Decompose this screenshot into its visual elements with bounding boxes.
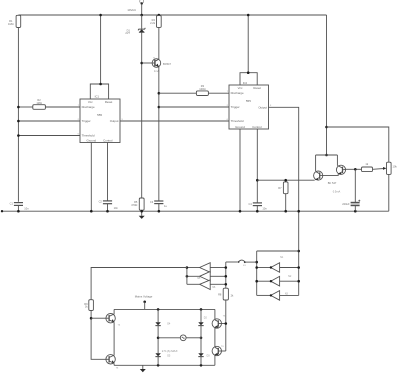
- label R9 value: [84, 302, 88, 309]
- wire C2 to ground bus: [107, 204, 109, 212]
- wire IC1 control pin to C2: [107, 143, 109, 201]
- junction IC1 bracket: [99, 83, 102, 86]
- svg-text:2k: 2k: [231, 294, 234, 298]
- label C5 plus: [358, 200, 360, 202]
- capacitor C4: [253, 203, 262, 206]
- svg-text:N6: N6: [212, 287, 216, 289]
- svg-text:IC2: IC2: [243, 81, 248, 85]
- junction node A dots: [17, 106, 20, 137]
- svg-text:1k: 1k: [85, 305, 88, 309]
- svg-text:555: 555: [97, 113, 102, 117]
- svg-text:D4: D4: [167, 324, 171, 326]
- label R1 value: [8, 19, 14, 26]
- wire left diode rail upper: [157, 309, 159, 322]
- wire R9 down to Q4 base: [91, 311, 106, 360]
- svg-text:T6: T6: [116, 368, 119, 370]
- svg-text:Discharge: Discharge: [82, 105, 95, 109]
- wire darlington collector bar: [316, 154, 338, 156]
- wire node A to IC1 trigger pin 2: [18, 120, 80, 122]
- potentiometer P1: [387, 162, 392, 174]
- resistor R4: [157, 16, 162, 28]
- wire switch left lead: [226, 261, 238, 263]
- wire R8 to transistor bases: [225, 300, 227, 351]
- diode D4: [155, 322, 160, 325]
- resistor R2: [33, 105, 46, 110]
- junction discharge branch: [158, 92, 161, 95]
- buffer N2: [255, 276, 300, 286]
- svg-text:N1: N1: [280, 257, 284, 259]
- wire C4 to bus: [256, 206, 258, 212]
- IC2 inner pin labels: [231, 86, 268, 129]
- svg-text:D3: D3: [207, 355, 211, 357]
- wire Q1 collector: [315, 155, 317, 171]
- transistor T1 BC547: [152, 59, 161, 68]
- ground symbol bottom section: [140, 365, 146, 372]
- wire bottom section bottom rail: [114, 364, 215, 366]
- diode D3: [198, 353, 203, 356]
- svg-text:2V7: 2V7: [125, 31, 130, 35]
- wire Q4 emitter to section bottom rail: [113, 363, 115, 365]
- IC2 pin stubs Vcc and Reset: [240, 73, 257, 85]
- wire Q3 base: [91, 317, 106, 319]
- svg-text:Threshold: Threshold: [82, 134, 95, 138]
- wire discharge branch to R3: [159, 92, 197, 94]
- IC2 pin numbers: [227, 91, 272, 121]
- resistor R3: [196, 91, 208, 96]
- wire IC2 output: [269, 107, 299, 295]
- resistor R5: [139, 198, 144, 210]
- junction Q5 base: [225, 322, 228, 325]
- svg-text:1u: 1u: [164, 204, 167, 208]
- svg-text:10n: 10n: [114, 206, 119, 210]
- svg-text:220uF: 220uF: [342, 202, 350, 206]
- svg-text:Output: Output: [258, 105, 267, 109]
- wire trigger branch to IC2 trigger pin 2: [159, 106, 229, 108]
- junction IC2 riser on top rail: [247, 14, 250, 17]
- svg-text:10k: 10k: [393, 164, 398, 168]
- svg-text:Reset: Reset: [253, 86, 261, 90]
- wire IC2 control pin down: [256, 129, 258, 203]
- svg-text:Control: Control: [252, 125, 262, 129]
- junction R7 top: [284, 179, 287, 182]
- resistor R9: [89, 300, 94, 311]
- wire IC1 output to IC2 threshold: [120, 120, 229, 122]
- wire IC2 supply riser: [247, 15, 249, 73]
- diode D2: [198, 322, 203, 325]
- wire drive line to bottom left column: [91, 268, 187, 300]
- transistor T3 Q6: [212, 346, 221, 355]
- wire right diode rail lower: [200, 357, 202, 366]
- junction trigger branch: [158, 106, 161, 109]
- wire inverter bank input bus: [225, 262, 227, 288]
- wire Q3 emitter to Q4 collector: [113, 322, 115, 355]
- junction darlington top: [325, 154, 328, 157]
- svg-text:470Ω: 470Ω: [131, 203, 137, 207]
- wire Q3 collector to section top rail: [113, 309, 115, 314]
- svg-text:10n: 10n: [24, 207, 29, 211]
- svg-text:C1: C1: [10, 202, 14, 206]
- svg-text:BC547: BC547: [163, 62, 171, 66]
- junction control branch: [256, 179, 259, 182]
- op IC2 555 timer box: [229, 85, 269, 129]
- wire R5 to bus: [141, 210, 143, 211]
- svg-text:2.5 (A) MAX: 2.5 (A) MAX: [162, 349, 178, 353]
- junction Q3 base tap: [90, 317, 93, 320]
- svg-text:10Volt: 10Volt: [127, 8, 136, 12]
- capacitor C1: [14, 203, 23, 206]
- label R3 value: [199, 84, 205, 91]
- svg-text:Discharge: Discharge: [231, 91, 244, 95]
- junction C5 tap: [354, 168, 357, 171]
- wire mid rail left: [158, 337, 180, 339]
- label R5 value: [131, 200, 138, 207]
- svg-text:555: 555: [246, 99, 251, 103]
- wire right diode rail middle: [200, 326, 202, 354]
- wire mid rail right: [186, 337, 201, 339]
- junction inverter bank top right: [297, 250, 300, 253]
- wire T1 base: [142, 62, 153, 64]
- junction T1 base tap: [140, 62, 143, 65]
- svg-text:Vcc: Vcc: [88, 100, 93, 104]
- wire R3 to IC2 discharge pin 7: [208, 92, 229, 94]
- svg-text:T3: T3: [221, 346, 224, 348]
- IC1 pin numbers: [78, 105, 124, 135]
- svg-text:Vcc: Vcc: [238, 86, 243, 90]
- svg-text:C2: C2: [99, 200, 103, 204]
- wire ground bus: [2, 210, 389, 212]
- svg-text:N2: N2: [288, 276, 292, 278]
- wire inverter bank top link: [257, 250, 299, 252]
- junction R4 on top rail: [158, 14, 161, 17]
- svg-text:Ground: Ground: [86, 139, 96, 143]
- svg-text:Control: Control: [103, 139, 113, 143]
- resistor R1: [16, 15, 21, 27]
- svg-text:D5: D5: [167, 356, 171, 358]
- svg-text:IC1: IC1: [95, 95, 100, 99]
- svg-text:R8: R8: [218, 292, 222, 296]
- wire IC2 ground pin to bus: [239, 129, 241, 211]
- buffer N6: [187, 280, 227, 290]
- wire right column top: [214, 309, 216, 319]
- wire top Vcc rail: [18, 14, 326, 16]
- svg-text:10n: 10n: [262, 206, 267, 210]
- svg-text:Trigger: Trigger: [231, 105, 240, 109]
- wire top rail to zener D1: [141, 15, 143, 29]
- transistor T5 Q5: [212, 319, 221, 328]
- buffer N5: [186, 272, 228, 282]
- transistor T6 Q4: [106, 355, 115, 364]
- wire C1 to ground bus: [17, 205, 19, 211]
- svg-text:N5: N5: [197, 278, 201, 280]
- junction mid rail: [157, 337, 203, 340]
- junction IC1 riser on top rail: [99, 14, 102, 17]
- wire C5 to bus: [354, 205, 356, 211]
- svg-text:Output: Output: [110, 119, 119, 123]
- junction top rail at zener column: [140, 14, 143, 17]
- diode D1 zener: [138, 28, 145, 33]
- wire R1 down to node A: [17, 28, 19, 202]
- svg-text:C4: C4: [248, 202, 252, 206]
- diode D5: [155, 353, 160, 356]
- ground symbol at bus: [139, 211, 145, 219]
- svg-text:Threshold: Threshold: [231, 119, 244, 123]
- wire Q6 emitter to bottom rail: [214, 355, 216, 365]
- label D1 value: [125, 28, 130, 35]
- buffer N1: [255, 263, 300, 273]
- buffer N3: [257, 291, 299, 301]
- wire Q5 emitter to Q6 collector: [214, 328, 216, 347]
- wire pot bottom to bus: [388, 174, 390, 211]
- svg-text:BC 547: BC 547: [328, 181, 337, 185]
- op IC1 555 timer box: [80, 99, 120, 143]
- wire Q2 emitter to Q1 base: [323, 174, 338, 175]
- label R2 value: [36, 98, 42, 105]
- power flag 10Volt: [140, 0, 144, 15]
- svg-text:0.5mA: 0.5mA: [333, 189, 341, 193]
- wire C5 column: [354, 169, 356, 202]
- IC1 pin stubs Vcc and Reset: [90, 84, 108, 99]
- junction switch node: [255, 261, 258, 264]
- svg-text:2.2k: 2.2k: [150, 21, 156, 25]
- resistor R6: [362, 167, 373, 172]
- svg-text:1MΩ: 1MΩ: [36, 101, 42, 105]
- wire zener column down to R5: [141, 32, 143, 198]
- svg-text:D2: D2: [204, 318, 208, 320]
- svg-text:1MΩ: 1MΩ: [8, 22, 14, 26]
- IC1 inner pin labels: [82, 100, 119, 143]
- wire R6 to pot wiper arrow: [373, 168, 385, 171]
- svg-text:Mains Voltage: Mains Voltage: [135, 295, 153, 299]
- junction output bus top: [186, 266, 189, 269]
- transistor T4 Q3: [106, 314, 115, 323]
- wire Q5 base to rail: [222, 323, 226, 325]
- switch S1: [238, 260, 246, 263]
- svg-text:100Ω: 100Ω: [199, 87, 205, 91]
- wire R4 to T1 collector: [158, 27, 160, 59]
- wire right diode rail upper: [200, 309, 202, 322]
- transistor Q1 BC547: [314, 171, 323, 180]
- wire T1 emitter column down to C3: [158, 67, 160, 201]
- wire R7 to bus: [285, 194, 287, 212]
- capacitor C2: [103, 201, 112, 204]
- wire node A to R2: [18, 106, 32, 108]
- wire inverter output bus left: [186, 268, 188, 285]
- junction pot feed: [325, 126, 328, 129]
- wire IC1 ground pin to bus: [90, 143, 92, 212]
- wire control node to Q1 emitter: [257, 179, 314, 181]
- wire left diode rail lower: [157, 357, 159, 366]
- wire node A to IC1 threshold pin 6: [18, 135, 80, 137]
- svg-text:1k: 1k: [365, 162, 368, 166]
- svg-text:Ground: Ground: [235, 125, 245, 129]
- wire Q2 collector: [336, 155, 338, 165]
- wire IC1 supply riser: [100, 15, 102, 84]
- junction bus dots: [1, 210, 357, 213]
- wire R2 to IC1 discharge pin 7: [45, 106, 80, 108]
- source V1 AC: [180, 335, 186, 341]
- pot wiper arrowhead: [383, 167, 387, 170]
- transistor Q2 BC547: [336, 165, 345, 174]
- resistor R8: [223, 288, 228, 300]
- svg-text:S1: S1: [243, 265, 246, 267]
- svg-text:T4: T4: [118, 324, 121, 326]
- wire pot feed across: [327, 127, 389, 162]
- label R4 value: [150, 18, 156, 25]
- junction IC2 bracket: [247, 71, 250, 74]
- svg-text:Reset: Reset: [105, 100, 113, 104]
- buffer N4: [187, 263, 227, 273]
- svg-text:R7: R7: [278, 186, 282, 190]
- resistor R7: [283, 182, 288, 194]
- wire Q6 base to rail: [222, 350, 226, 352]
- wire bottom section top rail: [114, 308, 215, 310]
- node Mains Voltage flag: [143, 301, 146, 310]
- capacitor C3: [154, 201, 163, 204]
- wire switch right lead: [245, 261, 256, 263]
- wire left diode rail middle: [157, 326, 159, 354]
- svg-text:Trigger: Trigger: [82, 119, 91, 123]
- wire Vcc right column: [326, 15, 328, 155]
- wire inverter bank left bus: [256, 251, 258, 295]
- wire Q2 base to R6: [346, 168, 362, 170]
- junction top rail diode taps: [157, 308, 203, 367]
- svg-text:C3: C3: [150, 200, 154, 204]
- wire C3 to bus: [158, 204, 160, 212]
- capacitor C5 electrolytic 220u: [351, 203, 360, 206]
